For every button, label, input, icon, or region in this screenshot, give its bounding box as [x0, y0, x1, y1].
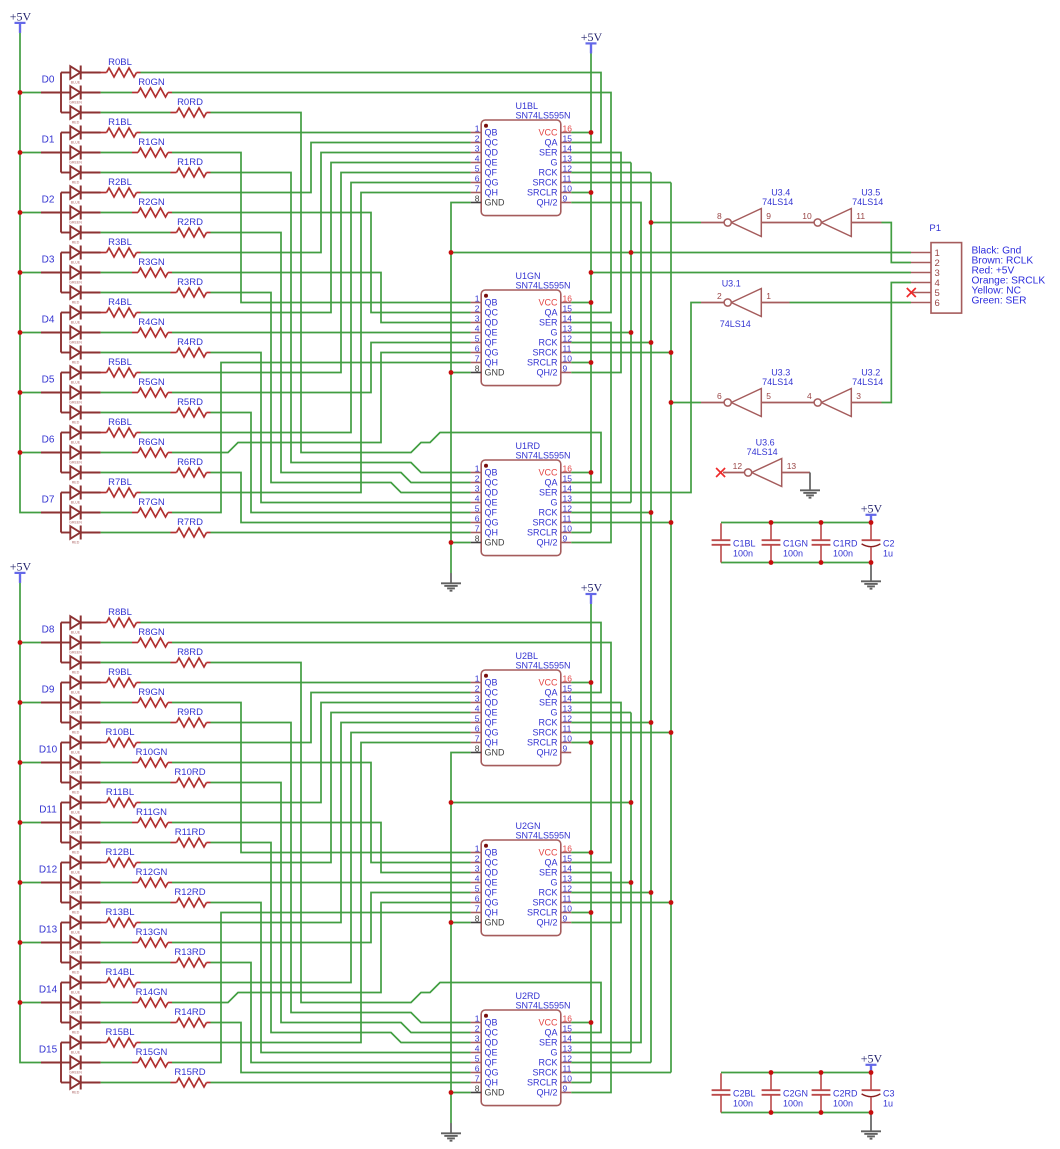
- svg-text:1: 1: [475, 1013, 480, 1023]
- resistor R6RD: [171, 457, 211, 477]
- junction +5V rail / D13: [18, 940, 23, 945]
- wire R14BL to U2BL pin6: [141, 733, 471, 983]
- svg-text:GREEN: GREEN: [69, 1070, 82, 1074]
- svg-text:R14RD: R14RD: [174, 1007, 205, 1018]
- net color legend: [972, 245, 1046, 306]
- junction +5V rail / D11: [18, 820, 23, 825]
- junction bus-gnd / C2: [869, 560, 874, 565]
- wire U1RD SRCK to SRCK rail: [571, 522, 671, 524]
- svg-text:QA: QA: [544, 1028, 557, 1038]
- wire cascade U2RD QH/2 to U2GN SER: [571, 873, 611, 1093]
- wire U2RD VCC to +5V: [571, 1022, 591, 1024]
- wire +5V stem: [590, 43, 592, 53]
- svg-text:11: 11: [563, 893, 572, 903]
- svg-text:QH/2: QH/2: [536, 748, 557, 758]
- junction +5V rail / D1: [18, 150, 23, 155]
- svg-text:1: 1: [475, 843, 480, 853]
- svg-text:3: 3: [475, 483, 480, 493]
- junction bus+5V / C3: [869, 1070, 874, 1075]
- wire R3RD to U1RD pin3: [211, 293, 471, 493]
- svg-text:+5V: +5V: [10, 559, 32, 573]
- svg-text:12: 12: [563, 163, 573, 173]
- wire GND(G) rail bottom: [630, 713, 632, 1053]
- svg-text:R6BL: R6BL: [108, 417, 132, 428]
- svg-text:5: 5: [475, 1053, 480, 1063]
- svg-text:QF: QF: [485, 718, 498, 728]
- svg-text:QE: QE: [485, 878, 498, 888]
- wire D9 red cathode to R9RD: [101, 722, 171, 724]
- wire R11RD to U2RD pin3: [211, 843, 471, 1043]
- wire D5 red cathode to R5RD: [101, 412, 171, 414]
- +5V power symbol PWR04 (above U2BL): [581, 581, 603, 604]
- wire +5V column (top): [590, 54, 592, 533]
- wire U2RD SRCLR to +5V: [571, 1082, 591, 1084]
- wire R2RD to U1RD pin2: [211, 233, 471, 483]
- wire R5RD to U1RD pin5: [211, 413, 471, 513]
- svg-text:QE: QE: [485, 328, 498, 338]
- resistor R0BL: [101, 57, 141, 77]
- wire +5V feeder to D9: [20, 702, 41, 704]
- svg-text:RED: RED: [72, 910, 80, 914]
- svg-text:QF: QF: [485, 1058, 498, 1068]
- svg-text:RCK: RCK: [538, 168, 557, 178]
- svg-text:14: 14: [563, 483, 573, 493]
- +5V power symbol PWR02 (above U1BL): [581, 30, 603, 53]
- wire RCK rail: [650, 173, 652, 1063]
- svg-text:9: 9: [563, 193, 568, 203]
- svg-text:RED: RED: [72, 850, 80, 854]
- wire +5V left rail (bottom): [20, 583, 41, 1063]
- wire D8 green cathode to R8GN: [101, 642, 132, 644]
- svg-text:SRCK: SRCK: [532, 898, 557, 908]
- svg-text:11: 11: [856, 211, 865, 221]
- junction SRCK rail / U1RD: [669, 520, 674, 525]
- junction bus+5V / C2: [869, 520, 874, 525]
- wire U1BL SRCK to SRCK rail: [571, 182, 671, 184]
- svg-text:G: G: [550, 878, 557, 888]
- svg-text:BLUE: BLUE: [71, 140, 81, 144]
- svg-text:12: 12: [563, 503, 573, 513]
- junction bus+5V / C2RD: [819, 1070, 824, 1075]
- resistor R3BL: [101, 237, 141, 257]
- svg-text:8: 8: [475, 193, 480, 203]
- resistor R9GN: [132, 687, 172, 707]
- svg-text:VCC: VCC: [538, 1018, 558, 1028]
- wire decoupling bus +5V (bottom bank): [721, 1072, 871, 1074]
- svg-text:3: 3: [475, 693, 480, 703]
- wire +5V feeder to D13: [20, 942, 41, 944]
- svg-text:R8RD: R8RD: [177, 647, 203, 658]
- svg-text:1u: 1u: [883, 1099, 893, 1109]
- junction +5V / U2BL VCC: [589, 680, 594, 685]
- svg-text:D4: D4: [42, 314, 55, 325]
- junction bus-gnd / C2RD: [819, 1110, 824, 1115]
- capacitor C2GN: [762, 1073, 808, 1112]
- wire R11BL to U2BL pin3: [141, 703, 471, 803]
- wire R9GN to U2GN pin1: [172, 703, 471, 853]
- svg-text:QG: QG: [485, 1068, 499, 1078]
- svg-text:GREEN: GREEN: [69, 1010, 82, 1014]
- svg-text:12: 12: [733, 461, 743, 471]
- svg-text:QB: QB: [485, 128, 498, 138]
- svg-text:2: 2: [475, 683, 480, 693]
- wire decoupling bus gnd (top bank): [721, 562, 871, 564]
- svg-text:GND: GND: [485, 1088, 506, 1098]
- svg-text:BLUE: BLUE: [71, 990, 81, 994]
- wire U2RD RCK to RCK rail: [571, 1062, 651, 1064]
- wire U3.1 output stub: [701, 302, 724, 304]
- resistor R5RD: [171, 397, 211, 417]
- svg-text:D14: D14: [39, 984, 58, 995]
- svg-text:10: 10: [563, 523, 573, 533]
- svg-text:R4BL: R4BL: [108, 297, 132, 308]
- svg-text:74LS14: 74LS14: [762, 197, 793, 207]
- svg-text:C2: C2: [883, 539, 895, 549]
- svg-text:C1GN: C1GN: [783, 539, 808, 549]
- svg-text:D15: D15: [39, 1044, 58, 1055]
- svg-text:15: 15: [563, 853, 573, 863]
- svg-text:GND: GND: [485, 918, 506, 928]
- svg-text:2: 2: [475, 473, 480, 483]
- wire R1RD to U1RD pin1: [211, 173, 471, 473]
- svg-text:100n: 100n: [733, 1099, 753, 1109]
- svg-text:U3.1: U3.1: [722, 279, 741, 289]
- junction GND link / G rail: [629, 800, 634, 805]
- svg-text:GREEN: GREEN: [69, 340, 82, 344]
- svg-text:GREEN: GREEN: [69, 650, 82, 654]
- resistor R15BL: [101, 1027, 141, 1047]
- wire +5V rail stem: [19, 23, 21, 33]
- svg-text:R2BL: R2BL: [108, 177, 132, 188]
- svg-text:74LS14: 74LS14: [852, 377, 883, 387]
- resistor R11GN: [132, 807, 172, 827]
- svg-text:16: 16: [563, 463, 573, 473]
- ground U3.6 output: [800, 480, 820, 498]
- svg-text:R5RD: R5RD: [177, 397, 203, 408]
- resistor R9RD: [171, 707, 211, 727]
- svg-text:1: 1: [475, 673, 480, 683]
- junction bus+5V / C1GN: [769, 520, 774, 525]
- wire D11 green cathode to R11GN: [101, 822, 132, 824]
- svg-text:5: 5: [475, 503, 480, 513]
- wire R5GN to U1GN pin5: [172, 343, 471, 393]
- svg-text:8: 8: [717, 211, 722, 221]
- resistor R15RD: [171, 1067, 211, 1087]
- wire R12BL to U2BL pin4: [141, 713, 471, 863]
- svg-text:RED: RED: [72, 1090, 80, 1094]
- wire R13BL to U2BL pin5: [141, 723, 471, 923]
- no-connect P1 pin5: [907, 288, 916, 297]
- svg-text:QD: QD: [485, 698, 499, 708]
- svg-text:74LS14: 74LS14: [852, 197, 883, 207]
- svg-text:R3BL: R3BL: [108, 237, 132, 248]
- svg-text:QG: QG: [485, 728, 499, 738]
- svg-text:R14BL: R14BL: [105, 967, 134, 978]
- svg-text:QH: QH: [485, 188, 499, 198]
- wire U1GN SRCLR to +5V: [571, 362, 591, 364]
- svg-text:R5BL: R5BL: [108, 357, 132, 368]
- wire U2GN G to GND rail: [571, 882, 631, 884]
- wire D6 green cathode to R6GN: [101, 452, 132, 454]
- resistor R13GN: [132, 927, 172, 947]
- svg-text:QF: QF: [485, 888, 498, 898]
- wire D8 red cathode to R8RD: [101, 662, 171, 664]
- resistor R10GN: [132, 747, 172, 767]
- wire U1BL G to GND rail: [571, 162, 631, 164]
- wire R7GN to U1GN pin7: [172, 363, 471, 513]
- svg-text:G: G: [550, 1048, 557, 1058]
- junction +5V rail / D4: [18, 330, 23, 335]
- wire D0 green cathode to R0GN: [101, 92, 132, 94]
- svg-text:4: 4: [475, 873, 480, 883]
- svg-text:14: 14: [563, 693, 573, 703]
- svg-text:GREEN: GREEN: [69, 950, 82, 954]
- junction SRCK rail / U2GN: [669, 900, 674, 905]
- resistor R2RD: [171, 217, 211, 237]
- svg-text:SN74LS595N: SN74LS595N: [516, 660, 571, 670]
- svg-text:9: 9: [766, 211, 771, 221]
- svg-text:GREEN: GREEN: [69, 710, 82, 714]
- wire U2RD GND branch: [451, 1092, 471, 1094]
- LED D9: [41, 676, 101, 735]
- svg-text:11: 11: [563, 723, 572, 733]
- svg-text:SRCLR: SRCLR: [527, 188, 558, 198]
- wire D7 green cathode to R7GN: [101, 512, 132, 514]
- svg-text:QA: QA: [544, 858, 557, 868]
- svg-text:R11GN: R11GN: [136, 807, 167, 818]
- wire +5V feeder to D12: [20, 882, 41, 884]
- wire R9BL to U2BL QB: [141, 682, 471, 684]
- junction +5V / U1BL SRCLR: [589, 190, 594, 195]
- wire GND to P1 pin1: [451, 252, 911, 254]
- wire +5V column (bottom): [590, 604, 592, 1083]
- svg-text:8: 8: [475, 363, 480, 373]
- junction GND / U1GN: [449, 370, 454, 375]
- svg-text:6: 6: [475, 723, 480, 733]
- svg-text:7: 7: [475, 353, 480, 363]
- svg-text:D12: D12: [39, 864, 58, 875]
- junction +5V rail / D10: [18, 760, 23, 765]
- junction RCK rail / U2GN: [649, 890, 654, 895]
- wire U1RD RCK to RCK rail: [571, 512, 651, 514]
- svg-text:D5: D5: [42, 374, 55, 385]
- wire D0 red cathode to R0RD: [101, 112, 171, 114]
- svg-text:6: 6: [475, 513, 480, 523]
- junction +5V rail / D8: [18, 640, 23, 645]
- svg-text:QD: QD: [485, 868, 499, 878]
- svg-text:9: 9: [563, 1083, 568, 1093]
- wire R10RD to U2RD pin2: [211, 783, 471, 1033]
- svg-text:14: 14: [563, 313, 573, 323]
- wire R14GN to U2GN pin6: [172, 903, 471, 1003]
- svg-text:SN74LS595N: SN74LS595N: [516, 450, 571, 460]
- svg-text:8: 8: [475, 533, 480, 543]
- LED D2: [41, 186, 101, 245]
- svg-text:R5GN: R5GN: [138, 377, 165, 388]
- svg-text:6: 6: [475, 173, 480, 183]
- resistor R3GN: [132, 257, 172, 277]
- wire U3.1 input stub: [761, 302, 789, 304]
- svg-text:BLUE: BLUE: [71, 260, 81, 264]
- resistor R8RD: [171, 647, 211, 667]
- wire +5V to P1 pin3: [591, 272, 911, 274]
- junction GND / P1 gnd line: [449, 250, 454, 255]
- svg-text:QD: QD: [485, 488, 499, 498]
- junction SRCK rail / U2BL: [669, 730, 674, 735]
- svg-text:5: 5: [475, 333, 480, 343]
- svg-text:SRCK: SRCK: [532, 728, 557, 738]
- wire D13 red cathode to R13RD: [101, 962, 171, 964]
- junction G rail / U1GN G: [629, 330, 634, 335]
- wire U3.4 in / U3.5 out: [761, 222, 814, 224]
- svg-text:2: 2: [717, 291, 722, 301]
- svg-text:R2GN: R2GN: [138, 197, 165, 208]
- svg-text:RCK: RCK: [538, 718, 557, 728]
- LED D5: [41, 366, 101, 425]
- LED D4: [41, 306, 101, 365]
- wire U1RD G to GND rail: [571, 502, 631, 504]
- wire U1BL GND to gnd: [451, 203, 471, 574]
- svg-text:RED: RED: [72, 1030, 80, 1034]
- svg-text:VCC: VCC: [538, 298, 558, 308]
- svg-text:RED: RED: [72, 240, 80, 244]
- wire R14RD to U2RD pin6: [211, 1023, 471, 1073]
- shift register U1GN (SN74LS595N): [471, 271, 572, 386]
- svg-text:SER: SER: [539, 698, 558, 708]
- svg-text:QF: QF: [485, 338, 498, 348]
- svg-text:QA: QA: [544, 138, 557, 148]
- +5V power symbol PWR (bottom bank): [861, 1051, 883, 1074]
- svg-text:SRCLR: SRCLR: [527, 908, 558, 918]
- svg-text:74LS14: 74LS14: [747, 447, 778, 457]
- svg-text:RED: RED: [72, 300, 80, 304]
- svg-text:3: 3: [475, 1033, 480, 1043]
- inverter U3.1 (74LS14): [717, 279, 771, 330]
- capacitor C2RD: [812, 1073, 858, 1112]
- svg-text:R12GN: R12GN: [136, 867, 168, 878]
- wire D5 green cathode to R5GN: [101, 392, 132, 394]
- svg-text:QH/2: QH/2: [536, 918, 557, 928]
- junction GND / U1RD: [449, 540, 454, 545]
- svg-text:D2: D2: [42, 194, 55, 205]
- svg-text:1: 1: [475, 123, 480, 133]
- wire R3GN to U1GN pin3: [172, 273, 471, 323]
- wire U1GN G to GND rail: [571, 332, 631, 334]
- resistor R8GN: [132, 627, 172, 647]
- svg-text:QE: QE: [485, 158, 498, 168]
- wire R8BL to U2BL QA: [141, 623, 602, 693]
- junction GND / U2RD: [449, 1090, 454, 1095]
- wire +5V stem: [870, 1065, 872, 1073]
- svg-text:6: 6: [717, 391, 722, 401]
- svg-text:C1RD: C1RD: [833, 539, 858, 549]
- svg-text:13: 13: [563, 1043, 573, 1053]
- junction GND / U2GN: [449, 920, 454, 925]
- svg-text:GREEN: GREEN: [69, 280, 82, 284]
- wire D10 green cathode to R10GN: [101, 762, 132, 764]
- svg-text:2: 2: [475, 303, 480, 313]
- svg-text:GREEN: GREEN: [69, 890, 82, 894]
- svg-text:13: 13: [563, 873, 573, 883]
- svg-text:1u: 1u: [883, 549, 893, 559]
- svg-text:C1BL: C1BL: [733, 539, 756, 549]
- capacitor C2: [862, 523, 895, 562]
- svg-text:C2GN: C2GN: [783, 1089, 808, 1099]
- svg-text:GREEN: GREEN: [69, 460, 82, 464]
- resistor R1BL: [101, 117, 141, 137]
- wire R7BL to U1BL pin7: [141, 193, 471, 493]
- wire D12 green cathode to R12GN: [101, 882, 132, 884]
- inverter U3.2 (74LS14): [807, 368, 883, 417]
- svg-text:BLUE: BLUE: [71, 930, 81, 934]
- junction RCK rail / U1RD: [649, 510, 654, 515]
- wire U1BL VCC to +5V: [571, 132, 591, 134]
- svg-text:SER: SER: [539, 488, 558, 498]
- svg-text:SER: SER: [539, 148, 558, 158]
- svg-text:D0: D0: [42, 74, 55, 85]
- junction +5V rail / D5: [18, 390, 23, 395]
- svg-text:R9RD: R9RD: [177, 707, 203, 718]
- svg-text:RED: RED: [72, 420, 80, 424]
- svg-text:QE: QE: [485, 498, 498, 508]
- wire +5V feeder to D5: [20, 392, 41, 394]
- svg-text:16: 16: [563, 123, 573, 133]
- svg-text:SN74LS595N: SN74LS595N: [516, 1000, 571, 1010]
- svg-text:14: 14: [563, 863, 573, 873]
- inverter U3.3 (74LS14): [717, 368, 793, 417]
- resistor R7BL: [101, 477, 141, 497]
- ground top: [441, 573, 461, 591]
- svg-text:R7BL: R7BL: [108, 477, 132, 488]
- resistor R4BL: [101, 297, 141, 317]
- svg-text:12: 12: [563, 1053, 573, 1063]
- wire +5V feeder to D11: [20, 822, 41, 824]
- wire RCLK from P1 to U3.5: [882, 223, 912, 263]
- wire R0BL to U1BL QA: [141, 73, 602, 143]
- LED D0: [41, 66, 101, 125]
- svg-text:G: G: [550, 498, 557, 508]
- wire R10BL to U2BL pin2: [141, 693, 471, 743]
- svg-text:C2BL: C2BL: [733, 1089, 756, 1099]
- wire R2GN to U1GN pin2: [172, 213, 471, 313]
- svg-text:R10RD: R10RD: [174, 767, 205, 778]
- svg-text:BLUE: BLUE: [71, 200, 81, 204]
- resistor R15GN: [132, 1047, 172, 1067]
- svg-text:QC: QC: [485, 858, 499, 868]
- svg-text:5: 5: [475, 883, 480, 893]
- svg-text:QH: QH: [485, 908, 499, 918]
- svg-text:11: 11: [563, 1063, 572, 1073]
- wire D3 red cathode to R3RD: [101, 292, 171, 294]
- wire D6 red cathode to R6RD: [101, 472, 171, 474]
- junction +5V / U2GN VCC: [589, 850, 594, 855]
- resistor R5BL: [101, 357, 141, 377]
- svg-text:C3: C3: [883, 1089, 895, 1099]
- svg-text:VCC: VCC: [538, 678, 558, 688]
- wire +5V left rail (top): [20, 33, 41, 513]
- wire D2 red cathode to R2RD: [101, 232, 171, 234]
- svg-text:+5V: +5V: [861, 1051, 883, 1065]
- wire D13 green cathode to R13GN: [101, 942, 132, 944]
- svg-text:R0BL: R0BL: [108, 57, 132, 68]
- ground bottom bank: [861, 1121, 881, 1139]
- svg-text:QH/2: QH/2: [536, 1088, 557, 1098]
- svg-text:+5V: +5V: [581, 30, 603, 44]
- svg-text:12: 12: [563, 333, 573, 343]
- wire U1RD SRCLR to +5V: [571, 532, 591, 534]
- wire D14 green cathode to R14GN: [101, 1002, 132, 1004]
- junction +5V rail / D6: [18, 450, 23, 455]
